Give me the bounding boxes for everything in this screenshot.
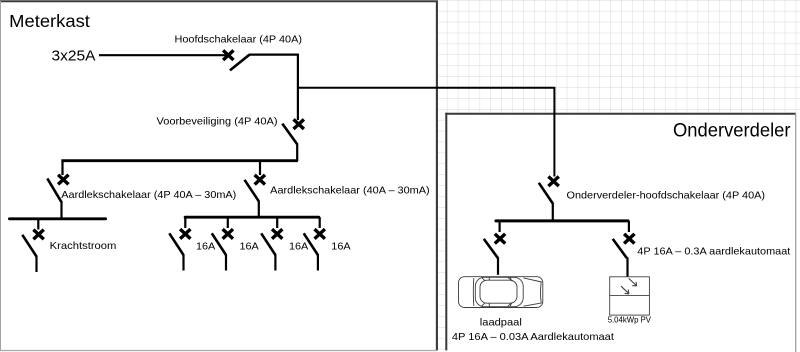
breaker PV bbox=[613, 221, 635, 277]
breaker 16A no.3 bbox=[261, 217, 282, 270]
svg-text:Aardlekschakelaar (4P 40A – 30: Aardlekschakelaar (4P 40A – 30mA) bbox=[61, 190, 236, 201]
svg-text:Onderverdeler: Onderverdeler bbox=[673, 120, 791, 142]
switch Hoofdschakelaar Q1 bbox=[223, 50, 249, 70]
switch Aardlekschakelaar right bbox=[245, 160, 266, 219]
svg-text:Krachtstroom: Krachtstroom bbox=[50, 241, 117, 252]
breaker 16A no.1 bbox=[169, 217, 190, 270]
panel Meterkast bbox=[0, 1, 438, 352]
svg-text:Meterkast: Meterkast bbox=[9, 11, 90, 31]
switch Aardlekschakelaar left bbox=[47, 160, 68, 220]
panel Onderverdeler bbox=[445, 113, 800, 352]
svg-text:Voorbeveiliging (4P 40A): Voorbeveiliging (4P 40A) bbox=[157, 116, 278, 127]
switch Voorbeveiliging Q2 bbox=[282, 119, 304, 161]
svg-text:4P 16A – 0.03A Aardlekautomaat: 4P 16A – 0.03A Aardlekautomaat bbox=[452, 332, 614, 343]
svg-text:16A: 16A bbox=[331, 241, 350, 252]
switch Onderverdeler-hoofdschakelaar bbox=[539, 177, 559, 223]
breaker laadpaal bbox=[484, 221, 505, 275]
svg-text:16A: 16A bbox=[240, 241, 259, 252]
bus 16A group bbox=[185, 216, 319, 219]
svg-text:Hoofdschakelaar (4P 40A): Hoofdschakelaar (4P 40A) bbox=[175, 34, 303, 45]
bus Onderverdeler bbox=[496, 219, 628, 222]
PV panel icon bbox=[610, 277, 650, 315]
svg-text:4P 16A – 0.3A aardlekautomaat: 4P 16A – 0.3A aardlekautomaat bbox=[637, 247, 790, 258]
car icon laadpaal bbox=[459, 277, 543, 308]
svg-text:16A: 16A bbox=[289, 241, 308, 252]
svg-text:16A: 16A bbox=[196, 241, 215, 252]
breaker 16A no.2 bbox=[212, 217, 233, 270]
wire branch to Onderverdeler bbox=[298, 88, 555, 177]
svg-text:3x25A: 3x25A bbox=[52, 48, 96, 65]
bus Krachtstroom bbox=[9, 217, 105, 220]
svg-text:Onderverdeler-hoofdschakelaar: Onderverdeler-hoofdschakelaar (4P 40A) bbox=[567, 190, 766, 201]
breaker Krachtstroom bbox=[22, 219, 44, 272]
breaker 16A no.4 bbox=[304, 217, 325, 270]
wire from Hoofdschakelaar to Voorbeveiliging bbox=[249, 55, 298, 120]
svg-text:Aardlekschakelaar (40A – 30mA): Aardlekschakelaar (40A – 30mA) bbox=[270, 185, 430, 196]
wire incoming 3x25A feed bbox=[99, 54, 226, 56]
svg-text:5.04kWp PV: 5.04kWp PV bbox=[608, 316, 652, 325]
bus main Meterkast bbox=[61, 159, 298, 162]
svg-text:laadpaal: laadpaal bbox=[480, 318, 522, 329]
